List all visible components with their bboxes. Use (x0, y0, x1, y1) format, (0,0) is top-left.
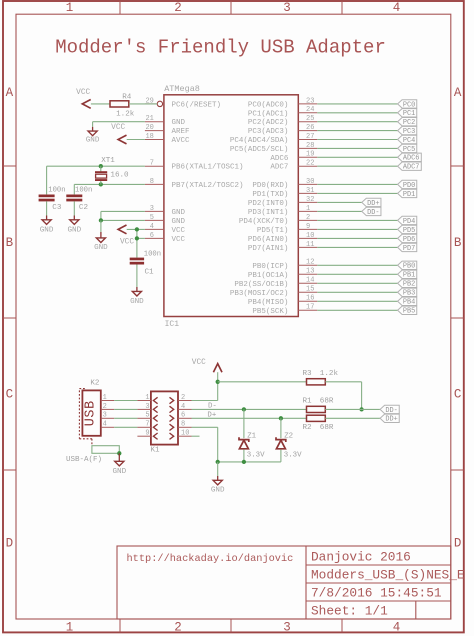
net flag PC0 (398, 100, 417, 110)
svg-text:15: 15 (306, 286, 314, 294)
wire (243, 450, 245, 462)
wire (317, 121, 397, 123)
svg-text:10: 10 (181, 430, 189, 438)
wire (317, 192, 397, 194)
svg-text:A: A (454, 86, 462, 100)
svg-text:5: 5 (150, 214, 154, 222)
wire (280, 418, 282, 438)
pin 8 (PB7(XTAL2/TOSC2)) (145, 178, 164, 186)
svg-text:1: 1 (145, 394, 149, 402)
pin 17 (PB5(SCK)) (298, 304, 317, 312)
wire (317, 228, 397, 230)
net flag ADC6 (398, 153, 422, 163)
label USB-A(F) (66, 456, 102, 464)
pin 22 (ADC7) (298, 160, 317, 168)
junction (99, 182, 103, 186)
svg-text:http://hackaday.io/danjovic: http://hackaday.io/danjovic (127, 553, 294, 565)
resistor R4 (110, 94, 135, 119)
svg-text:VCC: VCC (120, 239, 134, 247)
svg-text:USB-A(F): USB-A(F) (66, 456, 102, 464)
svg-text:4: 4 (181, 403, 185, 411)
wire (243, 409, 245, 438)
svg-text:16.0: 16.0 (110, 171, 129, 179)
net flag PC2 (398, 118, 417, 128)
svg-text:PD2(INT0): PD2(INT0) (248, 200, 289, 208)
svg-text:GND: GND (86, 136, 100, 144)
wire (91, 103, 110, 105)
wire (317, 156, 397, 158)
svg-text:K1: K1 (151, 447, 161, 455)
svg-text:GND: GND (172, 209, 186, 217)
svg-text:PD7(AIN1): PD7(AIN1) (248, 245, 289, 253)
wire (325, 382, 361, 410)
pin 23 (PC0(ADC0)) (298, 97, 317, 105)
wire (114, 408, 137, 410)
junction (216, 380, 220, 384)
pin 28 (PC5(ADC5/SCL)) (298, 142, 317, 150)
svg-text:18: 18 (145, 133, 153, 141)
net label D- (208, 403, 217, 411)
pin 20 (AREF) (145, 124, 164, 132)
resistor R1 68R (303, 398, 334, 413)
wire (317, 264, 397, 266)
wire (317, 147, 397, 149)
net flag PD5 (398, 225, 417, 235)
svg-text:PD1(TXD): PD1(TXD) (252, 191, 288, 199)
svg-text:Danjovic 2016: Danjovic 2016 (311, 550, 411, 565)
title block (117, 546, 465, 619)
svg-text:GND: GND (130, 298, 144, 306)
supply VCC (bottom) (192, 359, 222, 372)
svg-text:PC3(ADC3): PC3(ADC3) (248, 128, 289, 136)
wire (317, 201, 362, 203)
wire (pin 7 / XTAL1) (47, 166, 145, 194)
svg-text:C: C (6, 388, 14, 402)
svg-text:3: 3 (145, 403, 149, 411)
wire (129, 103, 157, 105)
svg-text:1: 1 (66, 621, 74, 635)
pin 24 (PC1(ADC1)) (298, 106, 317, 114)
svg-text:22: 22 (306, 160, 314, 168)
wire (shield) (92, 446, 119, 454)
pin 3 (GND) (145, 205, 164, 213)
svg-text:PD5(T1): PD5(T1) (257, 227, 289, 235)
svg-text:B: B (454, 236, 462, 250)
wire (317, 183, 397, 185)
ground (C3) (40, 201, 54, 234)
net flag DD- (362, 207, 381, 217)
pin 30 (PD0(RXD)) (298, 178, 317, 186)
svg-text:7: 7 (150, 160, 154, 168)
svg-text:C1: C1 (145, 269, 155, 277)
pin 31 (PD1(TXD)) (298, 187, 317, 195)
K1 pin 10 (178, 430, 192, 438)
K2 pin 1 (101, 394, 114, 402)
K1 pin 6 (178, 412, 192, 420)
junction (135, 236, 139, 240)
svg-text:1.2k: 1.2k (320, 370, 339, 378)
svg-text:K2: K2 (90, 380, 99, 388)
svg-text:VCC: VCC (192, 359, 206, 367)
net flag PC5 (398, 144, 417, 154)
svg-text:R2: R2 (303, 424, 313, 432)
svg-text:PC5(ADC5/SCL): PC5(ADC5/SCL) (230, 146, 289, 154)
svg-text:28: 28 (306, 142, 314, 150)
svg-text:24: 24 (306, 106, 314, 114)
pin 16 (PB4(MISO)) (298, 295, 317, 303)
K1 pin 4 (178, 403, 192, 411)
svg-text:6: 6 (181, 412, 185, 420)
svg-text:AREF: AREF (172, 128, 190, 136)
svg-text:6: 6 (150, 232, 154, 240)
svg-text:PB4: PB4 (403, 299, 415, 307)
svg-text:R4: R4 (122, 94, 132, 102)
svg-text:68R: 68R (320, 424, 334, 432)
K1 pin 9 (137, 430, 151, 438)
svg-text:100n: 100n (144, 251, 161, 259)
svg-text:PB0(ICP): PB0(ICP) (252, 263, 288, 271)
svg-text:ADC7: ADC7 (403, 164, 420, 172)
supply VCC (pins 4,6) (118, 225, 134, 247)
svg-text:PD3(INT1): PD3(INT1) (248, 209, 289, 217)
svg-text:14: 14 (306, 277, 314, 285)
wire (317, 130, 397, 132)
svg-text:7/8/2016 15:45:51: 7/8/2016 15:45:51 (311, 586, 442, 601)
pin 6 (VCC) (145, 232, 164, 240)
svg-text:PB7(XTAL2/TOSC2): PB7(XTAL2/TOSC2) (172, 182, 244, 190)
svg-text:GND: GND (172, 119, 186, 127)
pin 11 (PD7(AIN1)) (298, 241, 317, 249)
svg-text:PC6(/RESET): PC6(/RESET) (172, 101, 222, 109)
svg-text:13: 13 (306, 268, 314, 276)
svg-text:DD+: DD+ (385, 416, 397, 424)
svg-text:PD7: PD7 (403, 245, 415, 253)
wire (127, 229, 145, 257)
svg-text:VCC: VCC (76, 89, 90, 97)
wire (317, 165, 397, 167)
svg-text:A: A (6, 86, 14, 100)
K2 pin 4 (101, 421, 114, 429)
net flag ADC7 (398, 162, 422, 172)
svg-text:3.3V: 3.3V (284, 452, 302, 460)
wire (127, 139, 145, 141)
svg-text:PB5: PB5 (403, 308, 415, 316)
wire (280, 450, 282, 462)
svg-text:4: 4 (393, 621, 401, 635)
capacitor C3 100n (39, 187, 66, 213)
svg-text:21: 21 (145, 115, 153, 123)
svg-text:PB3(MOSI/OC2): PB3(MOSI/OC2) (230, 290, 289, 298)
svg-text:23: 23 (306, 97, 314, 105)
net flag DD+ (362, 198, 381, 208)
net flag PD4 (398, 216, 417, 226)
pin 18 (AVCC) (145, 133, 164, 141)
svg-text:5: 5 (145, 412, 149, 420)
svg-text:C3: C3 (52, 204, 62, 212)
svg-text:68R: 68R (320, 398, 334, 406)
svg-text:30: 30 (306, 178, 314, 186)
sheet title (55, 36, 386, 58)
svg-text:Modder's Friendly USB Adapter: Modder's Friendly USB Adapter (55, 36, 386, 58)
pin 10 (PD6(AIN0)) (298, 232, 317, 240)
pin 12 (PB0(ICP)) (298, 259, 317, 267)
svg-text:PB3: PB3 (403, 290, 415, 298)
svg-text:VCC: VCC (172, 236, 186, 244)
wire (93, 121, 145, 123)
wire (114, 417, 137, 419)
wire (317, 273, 397, 275)
svg-text:ADC7: ADC7 (270, 164, 288, 172)
net flag DD+ (380, 414, 399, 424)
K1 pin 8 (178, 421, 192, 429)
resistor R3 1.2k (303, 370, 339, 385)
svg-text:D: D (6, 537, 14, 551)
svg-text:32: 32 (306, 196, 314, 204)
wire (317, 282, 397, 284)
svg-text:DD-: DD- (367, 209, 379, 217)
wire (317, 139, 397, 141)
net flag PB2 (398, 279, 417, 289)
svg-text:IC1: IC1 (165, 320, 180, 329)
svg-text:VCC: VCC (172, 227, 186, 235)
net flag PB0 (398, 261, 417, 271)
svg-text:3: 3 (150, 205, 154, 213)
svg-text:PC4(ADC4/SDA): PC4(ADC4/SDA) (230, 137, 289, 145)
svg-text:1.2k: 1.2k (116, 110, 135, 118)
svg-text:R1: R1 (303, 398, 313, 406)
K2 pin 2 (101, 403, 114, 411)
ground (pin 21) (86, 122, 100, 145)
svg-text:PB5(SCK): PB5(SCK) (252, 308, 288, 316)
net flag PD0 (398, 180, 417, 190)
svg-text:PC2(ADC2): PC2(ADC2) (248, 119, 289, 127)
svg-text:1: 1 (66, 1, 74, 15)
K1 pin 7 (137, 421, 151, 429)
svg-text:100n: 100n (75, 187, 92, 195)
junction (242, 460, 246, 464)
ground (bottom) (211, 462, 225, 495)
svg-text:26: 26 (306, 124, 314, 132)
svg-text:4: 4 (393, 1, 401, 15)
svg-text:PD0: PD0 (403, 182, 415, 190)
wire (192, 372, 218, 400)
net flag PD7 (398, 243, 417, 253)
svg-text:3.3V: 3.3V (247, 452, 265, 460)
svg-text:3: 3 (283, 1, 291, 15)
svg-text:2: 2 (174, 621, 182, 635)
svg-text:19: 19 (306, 151, 314, 159)
svg-text:Z2: Z2 (284, 432, 293, 440)
svg-text:Modders_USB_(S)NES_E: Modders_USB_(S)NES_E (311, 568, 465, 583)
svg-text:ATMega8: ATMega8 (164, 84, 200, 94)
pin 27 (PC4(ADC4/SDA)) (298, 133, 317, 141)
svg-text:D+: D+ (207, 412, 216, 420)
pin 14 (PB2(SS/OC1B)) (298, 277, 317, 285)
wire (317, 246, 397, 248)
pin 25 (PC2(ADC2)) (298, 115, 317, 123)
svg-text:1: 1 (306, 205, 310, 213)
wire (317, 103, 397, 105)
svg-text:4: 4 (103, 421, 107, 429)
svg-text:PB2(SS/OC1B): PB2(SS/OC1B) (234, 281, 288, 289)
svg-text:Z1: Z1 (247, 432, 256, 440)
crystal XT1 16.0 (95, 157, 129, 184)
zener diode Z1 3.3V (239, 432, 265, 459)
svg-text:16: 16 (306, 295, 314, 303)
svg-text:C2: C2 (79, 204, 89, 212)
svg-text:Sheet: 1/1: Sheet: 1/1 (311, 604, 388, 619)
wire (D+) (192, 417, 307, 419)
net flag PD1 (398, 189, 417, 199)
svg-text:4: 4 (150, 223, 154, 231)
svg-text:PB2: PB2 (403, 281, 415, 289)
svg-text:2: 2 (306, 214, 310, 222)
svg-text:DD+: DD+ (367, 200, 379, 208)
svg-text:GND: GND (94, 244, 108, 252)
pin 5 (GND) (145, 214, 164, 222)
svg-text:12: 12 (306, 259, 314, 267)
svg-text:7: 7 (145, 421, 149, 429)
ground (C2) (67, 201, 81, 234)
K1 pin 2 (178, 394, 192, 402)
svg-text:17: 17 (306, 304, 314, 312)
svg-text:PB4(MISO): PB4(MISO) (248, 299, 289, 307)
wire (325, 408, 380, 410)
wire (pin 8 / XTAL2) (74, 184, 145, 194)
svg-text:C: C (454, 388, 462, 402)
wire (D-) (192, 408, 307, 410)
svg-text:AVCC: AVCC (172, 137, 191, 145)
svg-text:GND: GND (40, 227, 54, 235)
wire (317, 112, 397, 114)
svg-text:PD0(RXD): PD0(RXD) (252, 182, 288, 190)
USB connector K2 (79, 380, 100, 446)
capacitor C2 100n (66, 187, 92, 213)
svg-text:9: 9 (145, 430, 149, 438)
net flag PC4 (398, 135, 417, 145)
pin 19 (ADC6) (298, 151, 317, 159)
svg-text:PD1: PD1 (403, 191, 415, 199)
net flag PB5 (398, 306, 417, 316)
svg-text:D: D (454, 537, 462, 551)
net flag PC1 (398, 109, 417, 119)
svg-text:PD6: PD6 (403, 236, 415, 244)
svg-text:PC1(ADC1): PC1(ADC1) (248, 110, 289, 118)
svg-text:PD4(XCK/T0): PD4(XCK/T0) (239, 218, 289, 226)
svg-text:XT1: XT1 (101, 157, 115, 165)
pin 4 (VCC) (145, 223, 164, 231)
svg-text:ADC6: ADC6 (270, 155, 289, 163)
svg-text:PB1(OC1A): PB1(OC1A) (248, 272, 289, 280)
wire (317, 219, 397, 221)
K1 pin 3 (137, 403, 151, 411)
svg-text:9: 9 (306, 223, 310, 231)
wire (192, 435, 200, 437)
resistor R2 68R (303, 415, 334, 432)
junction (216, 460, 220, 464)
svg-text:20: 20 (145, 124, 153, 132)
svg-text:3: 3 (103, 412, 107, 420)
svg-text:11: 11 (306, 241, 314, 249)
svg-text:PB0: PB0 (403, 263, 415, 271)
wire (317, 210, 362, 212)
wire (114, 426, 137, 428)
zener diode Z2 3.3V (276, 432, 302, 459)
svg-text:2: 2 (181, 394, 185, 402)
junction (99, 164, 103, 168)
svg-text:27: 27 (306, 133, 314, 141)
svg-text:PB1: PB1 (403, 272, 415, 280)
pin 1 (PD3(INT1)) (298, 205, 317, 213)
supply VCC (AVCC) (111, 124, 126, 144)
svg-text:R3: R3 (303, 370, 313, 378)
wire (114, 400, 137, 402)
K1 pin 5 (137, 412, 151, 420)
svg-text:2: 2 (174, 1, 182, 15)
svg-text:D-: D- (208, 403, 217, 411)
net flag PB1 (398, 270, 417, 280)
svg-text:GND: GND (211, 487, 225, 495)
svg-text:25: 25 (306, 115, 314, 123)
net flag PB3 (398, 288, 417, 298)
junction (99, 218, 103, 222)
wire (317, 291, 397, 293)
ground (C1) (130, 265, 144, 307)
wire (325, 417, 380, 419)
svg-text:2: 2 (103, 403, 107, 411)
svg-text:USB: USB (84, 400, 99, 426)
svg-text:PB6(XTAL1/TOSC1): PB6(XTAL1/TOSC1) (172, 164, 244, 172)
wire (pins 3,5 GND) (101, 211, 145, 220)
svg-text:1: 1 (103, 394, 107, 402)
wire (ground rail) (218, 461, 281, 463)
svg-text:B: B (6, 236, 14, 250)
pin 21 (GND) (145, 115, 164, 123)
junction (117, 451, 121, 455)
K2 pin 3 (101, 412, 114, 420)
junction (135, 227, 139, 231)
svg-text:8: 8 (181, 421, 185, 429)
net flag DD- (380, 405, 399, 415)
pin 32 (PD2(INT0)) (298, 196, 317, 204)
svg-text:DD-: DD- (385, 407, 397, 415)
pin 26 (PC3(ADC3)) (298, 124, 317, 132)
junction (242, 407, 246, 411)
IC IC1 ATMega8 body (164, 84, 298, 329)
svg-text:PD6(AIN0): PD6(AIN0) (248, 236, 289, 244)
svg-text:PC0(ADC0): PC0(ADC0) (248, 101, 289, 109)
svg-text:PD4: PD4 (403, 218, 415, 226)
ground (K2 shield) (112, 453, 126, 476)
pin 29 (PC6(/RESET)) (145, 97, 163, 106)
wire (317, 300, 397, 302)
svg-text:PD5: PD5 (403, 227, 415, 235)
supply VCC (reset pullup) (76, 89, 91, 108)
svg-text:GND: GND (67, 227, 81, 235)
pin 7 (PB6(XTAL1/TOSC1)) (145, 160, 164, 168)
junction (359, 407, 363, 411)
wire (317, 309, 397, 311)
ground (pins 3,5) (94, 220, 108, 252)
net label D+ (207, 412, 216, 420)
svg-text:10: 10 (306, 232, 314, 240)
svg-text:GND: GND (112, 468, 126, 476)
pin 9 (PD5(T1)) (298, 223, 317, 231)
svg-text:VCC: VCC (111, 124, 125, 132)
net flag PC3 (398, 126, 417, 136)
pin 15 (PB3(MOSI/OC2)) (298, 286, 317, 294)
net flag PB4 (398, 297, 417, 307)
